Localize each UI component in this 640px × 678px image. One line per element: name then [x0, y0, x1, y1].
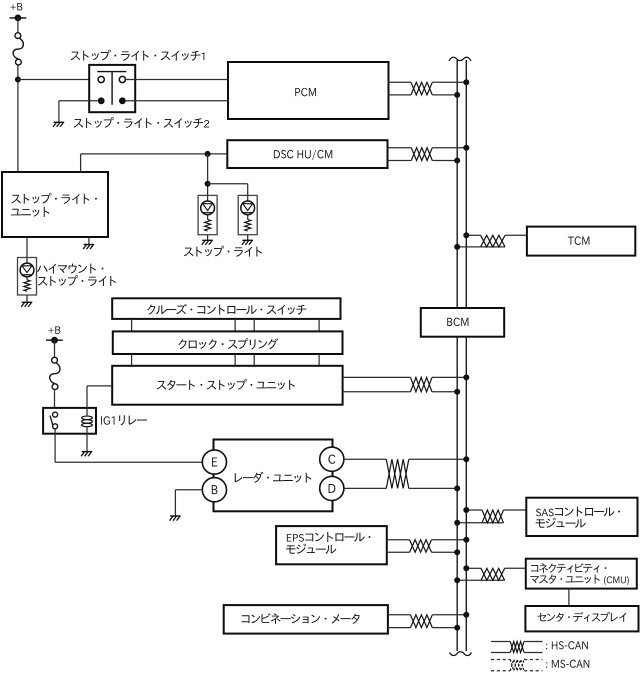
junction: [205, 151, 211, 157]
label SAS line1: [536, 507, 620, 517]
wire to bus: [432, 391, 457, 393]
label center display: [538, 612, 627, 622]
wire to start stop unit: [87, 385, 112, 387]
junction: [205, 181, 211, 187]
meter CAN-H wire: [388, 614, 411, 616]
junction bus: [454, 625, 460, 631]
wire junction to stop light switch: [18, 79, 89, 81]
wire down lamp 2: [247, 184, 249, 196]
junction bus: [454, 158, 460, 164]
wire to DSC: [81, 153, 228, 155]
junction bus: [454, 520, 460, 526]
junction bus: [463, 232, 469, 238]
wire +B to fuse: [54, 340, 56, 357]
label PCM: [295, 88, 316, 97]
junction bus: [463, 565, 469, 571]
HS-CAN bus line right: [465, 60, 467, 651]
twisted pair TCM: [481, 235, 505, 247]
SAS CAN-H wire: [466, 509, 482, 511]
IG1 relay box: [43, 408, 96, 434]
wire to bus: [432, 539, 467, 541]
twisted pair CMU: [481, 568, 505, 580]
junction bus: [454, 389, 460, 395]
wire lamp to ground: [26, 295, 28, 302]
wire to bus: [432, 627, 457, 629]
PCM CAN-H wire: [389, 81, 412, 83]
wire SW2 to PCM: [126, 100, 228, 102]
CMU CAN-L wire: [457, 579, 504, 581]
label stop light switch 2: [74, 117, 210, 128]
CMU CAN-H wire: [466, 567, 481, 569]
wire SW2 to ground: [59, 100, 98, 102]
label CMU line1: [531, 563, 606, 573]
label TCM: [568, 236, 590, 245]
ground: [21, 302, 32, 307]
start-stop CAN-L wire: [343, 391, 411, 393]
switch SW1 contacts: [97, 71, 126, 73]
SAS control module box: [526, 498, 637, 536]
wire to bus: [432, 614, 466, 616]
wire unit to ground: [88, 237, 90, 245]
wire to lamp 2: [208, 183, 248, 185]
high mount stop lamp: [18, 258, 37, 296]
wire to TCM: [505, 234, 527, 236]
stop lamp right: [238, 195, 257, 234]
label stop light: [184, 246, 262, 257]
pin label B: [212, 485, 218, 494]
twisted pair EPS: [410, 540, 432, 553]
label high mount line2: [38, 275, 116, 286]
wire lamp to ground: [247, 235, 249, 241]
switch SW2 contacts: [98, 97, 105, 104]
twisted pair DSC: [411, 148, 432, 161]
junction bus: [463, 537, 469, 543]
legend text MS-CAN: [546, 660, 589, 668]
twisted pair SAS: [482, 510, 504, 523]
cruise control switch box: [112, 298, 340, 319]
start-stop CAN-H wire: [343, 376, 411, 378]
EPS CAN-L wire: [387, 551, 410, 553]
wire lamp to ground: [207, 235, 209, 241]
pin B: [202, 478, 226, 502]
radar unit box: [214, 440, 333, 512]
wire down to ground: [58, 101, 60, 123]
junction bus: [454, 577, 460, 583]
junction: [15, 77, 21, 83]
connectivity master unit box: [526, 559, 637, 589]
wire to bus: [409, 458, 467, 460]
wire to bus: [432, 160, 457, 162]
label stop light unit line2: [11, 207, 49, 217]
DSC HU/CM box: [227, 140, 387, 168]
SAS CAN-L wire: [457, 522, 503, 524]
label combination meter: [242, 613, 360, 624]
legend HS-CAN: [491, 641, 510, 643]
node +B (battery feed 2): [48, 326, 60, 333]
wire to bus: [409, 487, 457, 489]
wire to bus: [432, 147, 466, 149]
twisted pair start stop: [411, 377, 433, 391]
wire down to stop lamps: [207, 154, 209, 196]
wire fuse to relay: [54, 390, 56, 415]
twisted pair radar: [386, 459, 409, 488]
junction bus: [463, 374, 469, 380]
label start stop unit: [157, 379, 295, 390]
junction bus: [454, 485, 460, 491]
wire CMU to center display: [568, 589, 570, 606]
wire to bus: [432, 376, 466, 378]
wire to radar unit pin E: [55, 461, 202, 463]
label DSC HU/CM: [274, 150, 332, 160]
center display box: [525, 606, 638, 631]
HS-CAN bus line left: [456, 59, 458, 651]
label BCM: [447, 318, 468, 327]
junction bus: [454, 244, 460, 250]
start stop unit box: [112, 366, 342, 405]
EPS CAN-H wire: [387, 539, 410, 541]
TCM CAN-L wire: [457, 246, 505, 248]
junction bus: [463, 507, 469, 513]
BCM box: [421, 308, 504, 337]
radar D wire: [344, 487, 386, 489]
label clock spring: [179, 338, 279, 349]
wire fuse to stop light unit: [17, 65, 19, 172]
label radar unit: [235, 472, 312, 483]
PCM CAN-L wire: [389, 94, 412, 96]
TCM box: [527, 227, 635, 256]
label stop light switch 1: [71, 50, 205, 61]
bus break top: [449, 57, 471, 61]
(spacer): [104, 79, 119, 81]
wire to bus: [432, 81, 466, 83]
label EPS line2: [286, 544, 336, 554]
combination meter box: [224, 605, 388, 634]
ground: [202, 240, 213, 245]
pin E: [202, 450, 226, 474]
twisted pair PCM: [411, 82, 432, 95]
wire coil to ground: [86, 434, 88, 452]
wire relay coil to start stop unit: [86, 386, 88, 408]
label EPS line1: [287, 532, 370, 542]
DSC CAN-H wire: [388, 147, 412, 149]
ground: [170, 516, 181, 521]
pin D: [320, 476, 344, 500]
legend MS-CAN: [491, 659, 510, 661]
fusible link: [50, 357, 60, 389]
label high mount line1: [37, 264, 103, 274]
relay coil: [86, 408, 88, 416]
pin label C: [328, 455, 335, 464]
label stop light unit line1: [11, 193, 97, 204]
relay switch contacts: [53, 412, 58, 417]
label IG1 relay: [101, 415, 147, 425]
stop light switch box: [89, 65, 135, 112]
fusible link: [13, 33, 23, 65]
radar C wire: [344, 458, 386, 460]
wire to CMU: [505, 567, 526, 569]
label cruise control switch: [147, 304, 306, 315]
connector wires cruise-clock: [131, 319, 133, 332]
wire to bus: [432, 551, 458, 553]
ground: [81, 452, 92, 457]
junction bus: [463, 145, 469, 151]
wire SW1 to PCM: [126, 79, 229, 81]
label CMU line2: [530, 574, 628, 585]
EPS control module box: [276, 526, 387, 564]
junction bus: [454, 549, 460, 555]
PCM box: [228, 62, 389, 119]
pin label D: [329, 484, 336, 493]
meter CAN-L wire: [388, 627, 411, 629]
TCM CAN-H wire: [466, 234, 480, 236]
pin C: [320, 447, 344, 471]
wire unit to lamp feed: [80, 154, 82, 172]
stop lamp left: [198, 195, 217, 234]
junction bus: [454, 92, 460, 98]
twisted pair meter: [411, 615, 433, 628]
wire relay to radar E: [54, 429, 56, 463]
wire +B to fuse: [17, 18, 19, 33]
ground: [53, 122, 64, 127]
wire radar B to ground: [175, 489, 202, 491]
junction bus: [463, 612, 469, 618]
wire to bus: [432, 94, 457, 96]
wire unit to high mount lamp: [26, 237, 28, 258]
ground: [83, 245, 94, 250]
connector wires clock-startstop: [131, 354, 133, 366]
ground: [242, 240, 253, 245]
clock spring box: [113, 331, 343, 354]
wire to SAS: [504, 509, 527, 511]
battery terminal: [10, 17, 27, 19]
battery terminal 2: [46, 339, 63, 341]
junction bus: [463, 79, 469, 85]
pin label E: [212, 457, 217, 466]
legend text HS-CAN: [546, 641, 588, 649]
label SAS line2: [536, 518, 586, 528]
stop light unit box: [2, 172, 108, 237]
node +B (battery feed 1): [10, 3, 22, 10]
junction bus: [463, 456, 469, 462]
DSC CAN-L wire: [388, 160, 412, 162]
wire down to ground: [174, 490, 176, 516]
